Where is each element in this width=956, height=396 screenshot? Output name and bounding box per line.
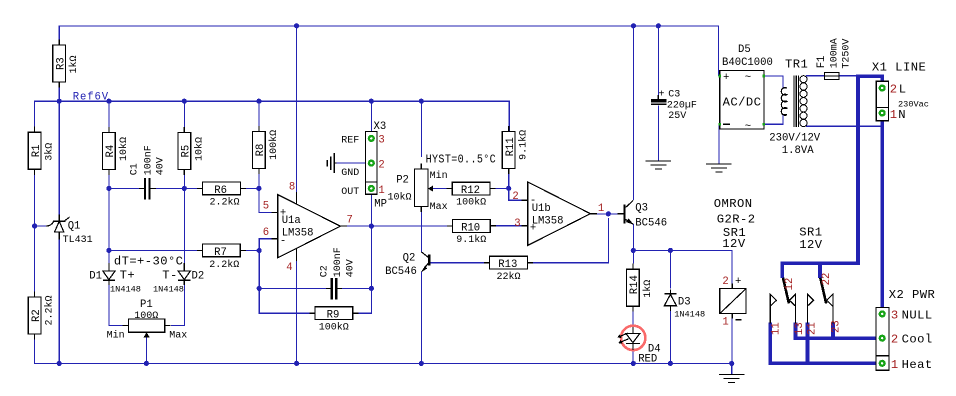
svg-text:23: 23 (831, 320, 843, 333)
svg-text:1N4148: 1N4148 (153, 285, 184, 295)
svg-text:100nF: 100nF (143, 145, 154, 175)
svg-text:+: + (735, 276, 741, 288)
ground below relay coil SR1 (719, 374, 744, 382)
svg-text:R5: R5 (181, 145, 193, 158)
svg-text:B40C1000: B40C1000 (722, 57, 773, 69)
svg-text:X1 LINE: X1 LINE (872, 60, 926, 74)
transformer TR1 secondary winding (781, 88, 787, 116)
svg-text:+: + (723, 72, 729, 84)
svg-text:4: 4 (286, 262, 292, 274)
wire net D2 anode to P1 right (171, 284, 184, 326)
svg-text:Max: Max (169, 330, 187, 341)
svg-text:+: + (659, 90, 665, 101)
wire net R14 bottom to LED D4 (632, 311, 634, 363)
svg-text:6: 6 (263, 227, 269, 239)
svg-text:~: ~ (745, 121, 751, 133)
LED D4 RED (617, 326, 660, 366)
svg-text:2: 2 (378, 160, 384, 172)
wire net Q2 emitter to ground rail (420, 272, 422, 364)
svg-text:R1: R1 (31, 144, 43, 157)
transistor Q3 BC546 (618, 200, 668, 229)
resistor R8 (253, 126, 280, 174)
svg-text:12: 12 (784, 278, 796, 291)
svg-text:BC546: BC546 (385, 266, 417, 278)
svg-text:C2: C2 (320, 265, 331, 277)
relay contact pin numbers rotated (771, 273, 843, 335)
svg-text:3: 3 (378, 135, 384, 147)
op-amp U1b pin numbers (512, 191, 604, 230)
resistor R5 (178, 127, 205, 175)
connector X3 (341, 121, 387, 211)
svg-text:Q1: Q1 (68, 220, 81, 232)
svg-text:21: 21 (807, 322, 819, 335)
svg-text:Q3: Q3 (635, 202, 648, 214)
capacitor C1 (130, 145, 167, 199)
wire net P2 wiper to R12 (433, 188, 452, 190)
svg-text:Heat: Heat (902, 358, 933, 372)
wire net R1 to Q1 ref / R2 (35, 169, 46, 297)
svg-text:MP: MP (374, 199, 387, 211)
ground below C3 (646, 161, 671, 169)
svg-text:REF: REF (341, 135, 359, 146)
svg-text:100kΩ: 100kΩ (268, 130, 280, 160)
resistor R10 (447, 220, 496, 247)
svg-text:22: 22 (821, 273, 833, 286)
svg-text:OMRON: OMRON (714, 197, 753, 211)
svg-text:C3: C3 (668, 90, 680, 101)
bridge rectifier D5 B40C1000 (719, 44, 773, 133)
svg-text:40V: 40V (155, 157, 166, 175)
svg-text:5: 5 (263, 200, 269, 212)
wire net U1a output / OUT / C2 right (338, 195, 452, 314)
svg-text:22kΩ: 22kΩ (497, 271, 521, 283)
svg-text:3: 3 (891, 308, 899, 322)
capacitor C2 (320, 247, 357, 299)
svg-text:T+: T+ (120, 269, 136, 283)
wire net N line thick X1 pin1 to X2 pin3 (880, 113, 884, 314)
node Q1 ref junction (32, 223, 37, 228)
diode D3 1N4148 (664, 290, 705, 320)
svg-text:R12: R12 (461, 185, 480, 197)
svg-text:LM358: LM358 (282, 228, 314, 240)
svg-text:R14: R14 (629, 275, 641, 294)
svg-text:U1a: U1a (282, 215, 301, 227)
wire net P2 bottom to Q2 collector (420, 210, 422, 252)
node Ref6V junctions (57, 99, 62, 104)
relay contact blade 12 (783, 278, 789, 304)
wire net R10 to U1b pin3 (490, 225, 522, 227)
node top rail junctions (294, 23, 299, 28)
svg-text:GND: GND (341, 168, 359, 179)
svg-text:10kΩ: 10kΩ (388, 191, 412, 203)
svg-text:BC546: BC546 (635, 217, 667, 229)
svg-text:1kΩ: 1kΩ (68, 55, 80, 73)
wire net U1b output to Q3 base (596, 213, 618, 215)
svg-text:R9: R9 (327, 310, 340, 322)
svg-text:1: 1 (378, 185, 384, 197)
svg-text:Min: Min (430, 170, 448, 182)
transformer TR1 primary winding (800, 76, 807, 127)
relay contact throw 21 (807, 294, 813, 323)
svg-text:1N4148: 1N4148 (674, 309, 705, 319)
transformer TR1 core (794, 75, 799, 127)
wire net Q3 emitter / relay coil feed (633, 224, 732, 364)
svg-text:R2: R2 (31, 309, 43, 322)
ground at X3 GND (pointing left) (327, 153, 336, 173)
svg-text:N: N (898, 108, 906, 122)
svg-text:D2: D2 (192, 270, 205, 282)
svg-text:RED: RED (638, 354, 657, 366)
resistor R6 (197, 182, 246, 209)
resistor R13 (484, 256, 533, 283)
fuse F1 (825, 73, 840, 80)
wire net D5 minus to ground (718, 124, 721, 163)
fuse F1 labels rotated (816, 38, 852, 68)
relay contact throw 11 (770, 294, 776, 323)
wire net V+ top rail (59, 26, 718, 200)
transistor Q2 BC546 mirrored (385, 252, 430, 278)
node pin2 junction (506, 186, 511, 191)
relay coil pin numbers (722, 276, 741, 328)
svg-text:OUT: OUT (341, 187, 359, 198)
connector X2 PWR (876, 308, 889, 371)
wire net Heat thick (contacts 11,21 to X2 pin1) (770, 323, 882, 364)
svg-text:U1b: U1b (532, 203, 551, 215)
svg-text:1kΩ: 1kΩ (642, 280, 654, 298)
svg-text:R3: R3 (55, 57, 67, 70)
svg-text:LM358: LM358 (532, 216, 564, 228)
wire net R11/R12 to U1b pin2 (490, 169, 522, 200)
svg-text:8: 8 (289, 181, 295, 193)
wire net X3 pin1 OUT down (370, 189, 372, 226)
svg-text:220µF: 220µF (667, 100, 697, 111)
svg-text:R13: R13 (498, 259, 517, 271)
svg-text:2: 2 (890, 83, 898, 97)
svg-text:2: 2 (722, 276, 728, 288)
svg-text:Ref6V: Ref6V (73, 91, 109, 103)
svg-text:1N4148: 1N4148 (110, 285, 141, 295)
svg-text:100kΩ: 100kΩ (319, 321, 349, 333)
svg-text:2.2kΩ: 2.2kΩ (209, 259, 239, 271)
svg-text:NULL: NULL (902, 308, 933, 322)
resistor R14 (627, 264, 654, 312)
svg-text:dT=+-30°C: dT=+-30°C (114, 254, 183, 268)
svg-text:R10: R10 (461, 223, 480, 235)
svg-text:9.1kΩ: 9.1kΩ (456, 234, 486, 246)
svg-text:Min: Min (107, 329, 125, 341)
svg-text:1: 1 (722, 316, 728, 328)
svg-text:T250V: T250V (842, 39, 853, 69)
svg-text:12V: 12V (722, 237, 746, 251)
svg-text:P1: P1 (140, 299, 153, 311)
diode D2 1N4148 (153, 263, 204, 295)
connector X1 LINE (876, 81, 888, 120)
svg-text:F1: F1 (816, 56, 828, 69)
svg-text:TR1: TR1 (785, 57, 808, 71)
wire net Cool thick (contacts 13,23 to X2 pin2) (796, 323, 883, 339)
node dT junctions (106, 248, 111, 253)
node relay feed junctions (631, 248, 636, 253)
wire net dT line y=250.4 (D1/R7) (109, 188, 330, 313)
svg-text:1.8VA: 1.8VA (782, 145, 814, 157)
svg-text:10kΩ: 10kΩ (193, 137, 205, 161)
svg-text:X3: X3 (374, 121, 387, 133)
svg-text:2: 2 (512, 191, 518, 203)
diode D1 1N4148 (89, 263, 141, 295)
svg-text:R6: R6 (214, 185, 227, 197)
resistor R11 (502, 126, 529, 174)
svg-text:TL431: TL431 (63, 235, 93, 246)
node output junctions (369, 224, 374, 229)
svg-text:T-: T- (162, 269, 178, 283)
potentiometer P1 (107, 299, 188, 341)
relay contact throw 13 (789, 294, 795, 323)
node sensor junctions (106, 186, 111, 191)
svg-text:C1: C1 (130, 163, 141, 175)
op-amp U1a pin numbers (263, 181, 353, 274)
svg-text:2.2kΩ: 2.2kΩ (210, 197, 240, 209)
svg-text:25V: 25V (668, 111, 686, 122)
svg-text:3kΩ: 3kΩ (44, 143, 56, 161)
svg-text:100kΩ: 100kΩ (456, 197, 486, 209)
svg-text:230V/12V: 230V/12V (769, 132, 821, 144)
capacitor C3 polarized (651, 90, 697, 122)
wire net C3 bottom to ground (657, 105, 659, 160)
wire net TR1 primary top to fuse F1 to L (806, 75, 857, 77)
wire net sensor bridge y=188 (R4/C1/R5/R6/R8) (109, 169, 272, 212)
ground below D5 (706, 164, 731, 172)
svg-text:100Ω: 100Ω (134, 311, 158, 322)
shunt regulator Q1 TL431 (46, 215, 93, 246)
svg-text:100nF: 100nF (333, 247, 344, 277)
svg-text:X2 PWR: X2 PWR (889, 288, 936, 302)
resistor R9 (309, 307, 358, 334)
resistor R12 (447, 182, 496, 209)
svg-text:Max: Max (430, 202, 448, 213)
svg-text:Cool: Cool (902, 333, 933, 347)
svg-text:AC/DC: AC/DC (723, 95, 762, 109)
svg-text:1: 1 (890, 108, 898, 122)
wire net D1 anode to P1 left (109, 284, 123, 326)
resistor R4 (103, 127, 130, 175)
op-amp U1a (272, 192, 347, 261)
svg-text:2: 2 (891, 333, 899, 347)
wire net Ref6V (35, 83, 510, 215)
op-amp U1b (522, 182, 597, 245)
svg-text:R8: R8 (255, 144, 267, 157)
svg-text:~: ~ (745, 72, 751, 84)
wire net GND rail (35, 240, 732, 375)
svg-text:D1: D1 (89, 270, 102, 282)
svg-text:R4: R4 (105, 145, 117, 158)
svg-text:13: 13 (794, 322, 806, 335)
svg-text:40V: 40V (345, 259, 356, 277)
svg-text:D5: D5 (738, 44, 751, 56)
svg-text:7: 7 (347, 214, 353, 226)
wire net L line 230V thick (782, 76, 882, 278)
resistor R7 (197, 244, 246, 271)
node GND rail junctions (57, 361, 62, 366)
svg-text:1: 1 (598, 203, 604, 215)
svg-text:P2: P2 (396, 174, 409, 186)
svg-text:R7: R7 (214, 247, 227, 259)
relay contact throw 23 (827, 294, 833, 323)
svg-text:100mA: 100mA (829, 38, 840, 68)
resistor R2 (28, 292, 55, 340)
wire net TR1 primary bottom to N (806, 125, 882, 127)
wire net D5 ac bottom to TR1 secondary bottom (764, 115, 783, 124)
svg-text:L: L (899, 83, 907, 97)
wire net D5 ac top to TR1 secondary top (764, 76, 783, 88)
wire net D3 bottom (669, 307, 671, 364)
svg-text:2.2kΩ: 2.2kΩ (44, 295, 56, 325)
relay contact blade 22 (820, 278, 826, 304)
potentiometer P2 (388, 164, 448, 213)
connector X3 pin numbers (378, 135, 384, 198)
node U1b output junction (606, 211, 611, 216)
svg-text:G2R-2: G2R-2 (717, 212, 756, 226)
svg-text:12V: 12V (799, 238, 823, 252)
wire net R5/D2 vertical x=184.3 (183, 188, 185, 263)
relay coil SR1 (720, 284, 746, 319)
svg-text:R11: R11 (505, 137, 517, 156)
svg-text:Q2: Q2 (403, 252, 416, 264)
wire net X3 GND to ground (337, 162, 372, 164)
svg-text:1: 1 (891, 358, 899, 372)
svg-text:HYST=0..5°C: HYST=0..5°C (426, 152, 497, 166)
resistor R3 (53, 40, 80, 88)
svg-text:11: 11 (771, 322, 783, 335)
svg-text:D3: D3 (678, 296, 691, 308)
svg-text:3: 3 (514, 218, 520, 230)
svg-text:10kΩ: 10kΩ (118, 137, 130, 161)
wire net Q2 base - R13 (430, 218, 608, 263)
svg-text:9.1kΩ: 9.1kΩ (518, 130, 530, 160)
resistor R1 (28, 127, 55, 176)
